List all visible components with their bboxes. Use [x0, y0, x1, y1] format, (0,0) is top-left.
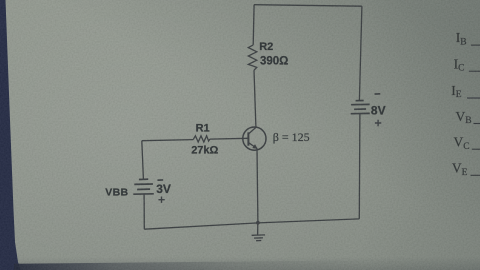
wire R2 to collector — [254, 70, 256, 127]
label IC blank — [454, 56, 480, 73]
wire bottom rail right — [258, 219, 359, 223]
transistor Q1 emitter arrow — [253, 145, 258, 149]
wire emitter down — [256, 148, 259, 223]
wire VBB top — [142, 141, 144, 179]
transistor Q1 circle — [243, 127, 266, 150]
wire base left — [142, 140, 193, 141]
wire right rail down to battery — [359, 6, 362, 100]
battery V1 plus sign — [375, 120, 381, 127]
junction node dot — [256, 221, 260, 225]
battery VBB 3V plates — [133, 179, 154, 194]
wire collector branch top — [252, 5, 255, 45]
label VC blank — [454, 135, 480, 152]
label VE blank — [452, 161, 480, 178]
transistor Q1 emitter stroke — [248, 143, 257, 149]
label IE blank — [451, 83, 480, 100]
battery V1 minus sign — [375, 93, 381, 95]
label VB blank — [456, 109, 480, 126]
wire VBB bottom — [143, 194, 145, 229]
ground bar 3 — [256, 240, 261, 242]
battery VBB plus sign — [158, 197, 164, 203]
wire bottom rail left — [144, 223, 258, 229]
resistor R1 zigzag — [193, 136, 210, 142]
ground bar 2 — [254, 237, 263, 239]
battery V1 8V plates — [351, 101, 370, 114]
wire base right — [210, 137, 249, 140]
transistor Q1 base bar — [247, 132, 249, 145]
label IB blank — [456, 30, 480, 47]
ground stem — [257, 223, 259, 235]
resistor R2 zigzag — [248, 45, 256, 70]
transistor Q1 collector stroke — [248, 127, 256, 134]
wire top rail — [254, 5, 362, 7]
battery VBB minus sign — [157, 179, 163, 181]
wire battery V1 to bottom rail — [358, 114, 361, 219]
ground bar 1 — [252, 234, 266, 236]
